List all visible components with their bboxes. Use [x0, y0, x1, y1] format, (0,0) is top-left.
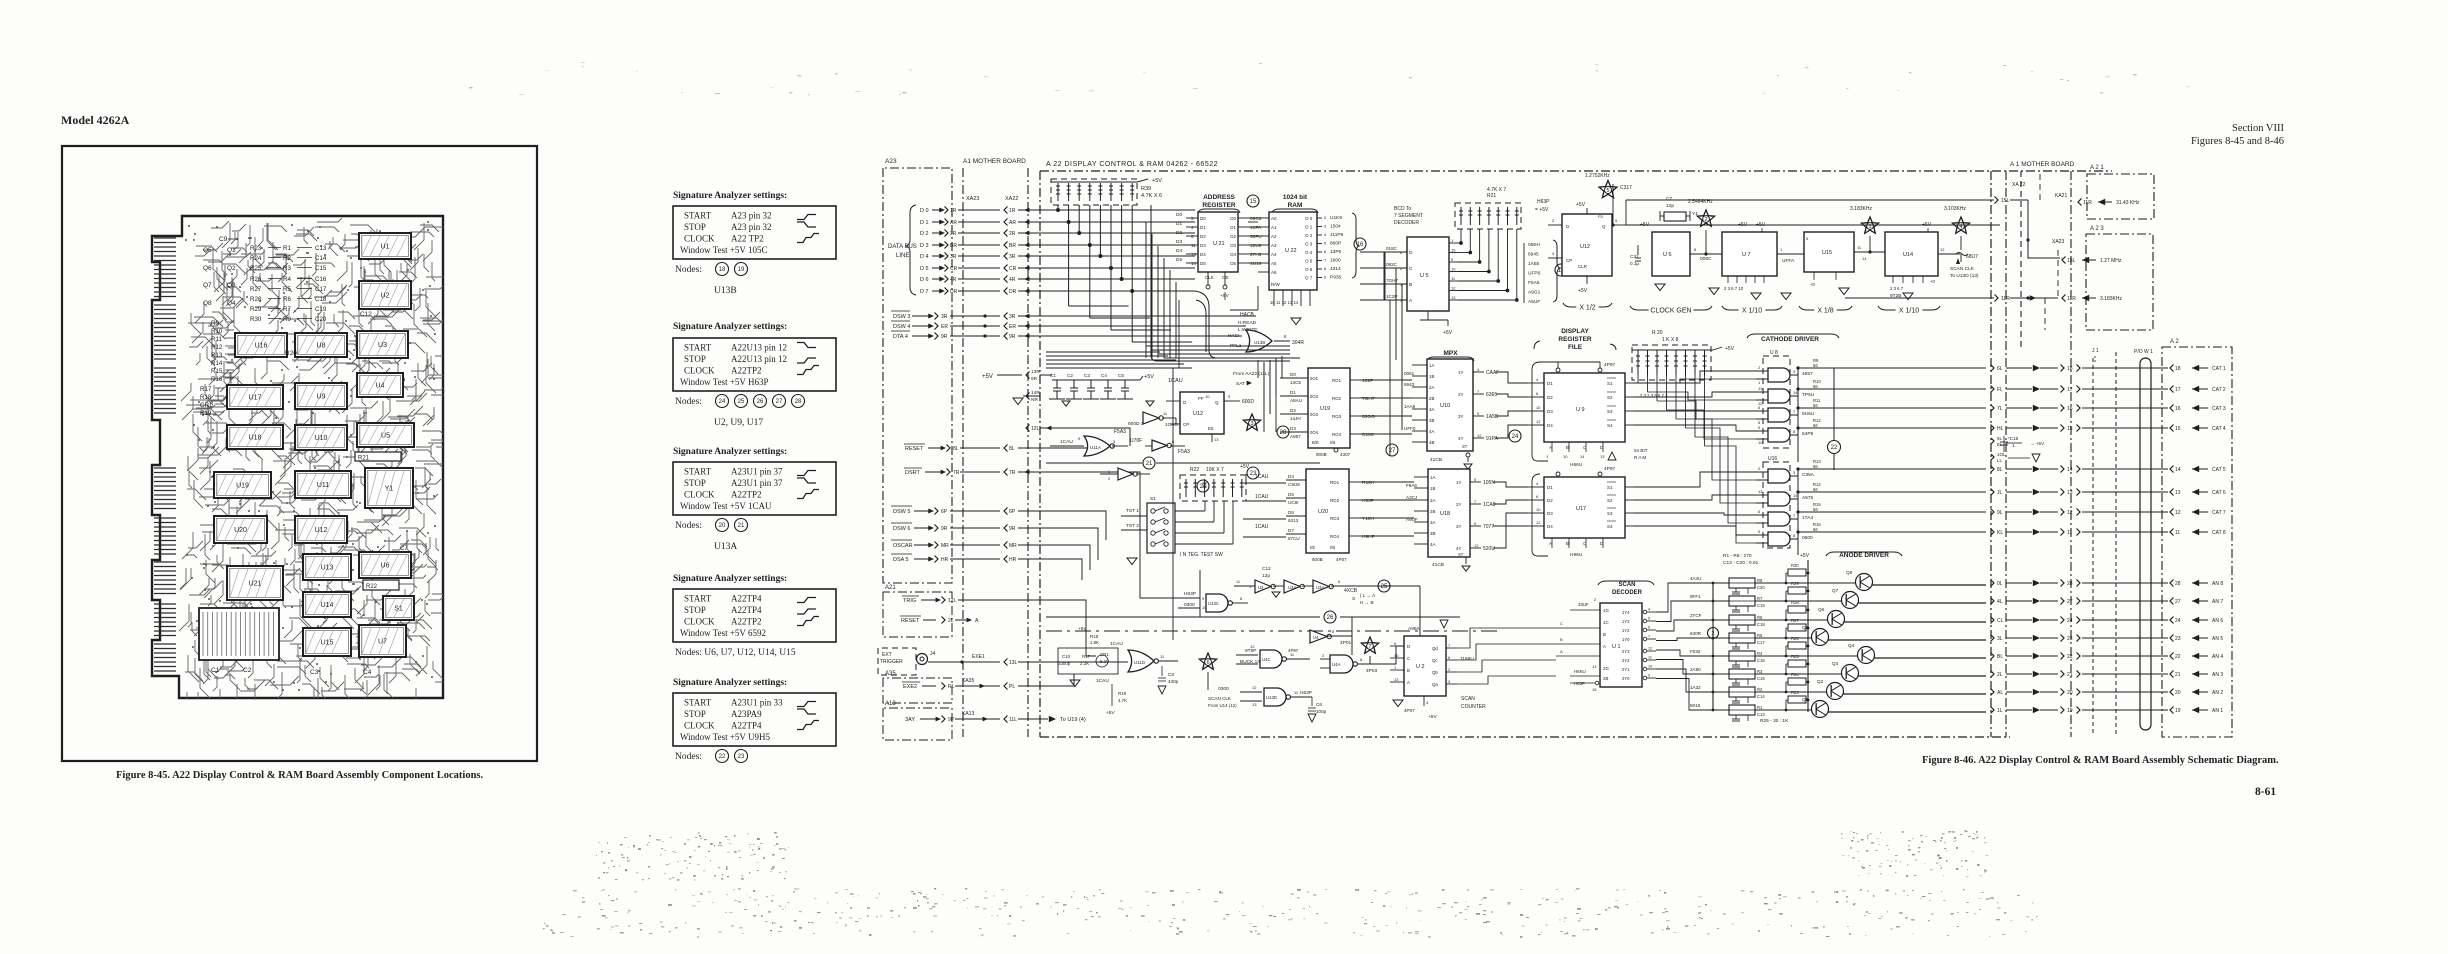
svg-text:R23: R23 — [1791, 690, 1799, 695]
svg-text:O4: O4 — [1230, 252, 1237, 257]
svg-text:S2: S2 — [1607, 395, 1613, 400]
svg-text:D3: D3 — [1547, 409, 1553, 414]
svg-text:A1 MOTHER BOARD: A1 MOTHER BOARD — [963, 158, 1026, 165]
IC U9 register — [1544, 373, 1625, 442]
svg-text:CR: CR — [950, 266, 958, 272]
svg-text:91PA: 91PA — [1486, 436, 1499, 442]
svg-text:D2: D2 — [1547, 395, 1553, 400]
svg-text:S1: S1 — [394, 606, 403, 613]
PCB IC U9 — [295, 383, 347, 409]
U17 top pins — [1556, 472, 1560, 476]
svg-text:1Y: 1Y — [1456, 480, 1461, 485]
svg-text:H96U: H96U — [1570, 552, 1583, 558]
svg-text:56: 56 — [1813, 384, 1818, 389]
wire loop upper — [1196, 300, 1206, 352]
svg-text:600B: 600B — [1312, 557, 1323, 562]
PCB IC S1 — [383, 596, 414, 620]
svg-text:Q3: Q3 — [1832, 661, 1839, 666]
wires inverter chain — [1234, 585, 1255, 587]
svg-text:S1: S1 — [1150, 496, 1156, 502]
svg-text:64P8: 64P8 — [1802, 431, 1814, 437]
svg-text:D1: D1 — [1290, 390, 1296, 395]
svg-text:+5V: +5V — [1800, 553, 1810, 559]
svg-text:R22: R22 — [1190, 467, 1199, 473]
svg-text:A9G1: A9G1 — [1528, 290, 1541, 296]
gate U16-1 — [1768, 469, 1790, 483]
gate U11D — [1128, 650, 1154, 672]
svg-text:33UF: 33UF — [1578, 602, 1589, 607]
svg-text:4A4U: 4A4U — [1690, 576, 1702, 581]
svg-text:A575: A575 — [1802, 495, 1814, 501]
svg-text:4R: 4R — [1009, 277, 1016, 283]
svg-text:4P97: 4P97 — [1604, 362, 1616, 368]
wire AN 7 crossing W1 — [2170, 598, 2174, 605]
svg-text:S3: S3 — [1607, 409, 1613, 414]
svg-text:24: 24 — [2175, 618, 2181, 624]
wire R39 +5V feed — [1051, 181, 1137, 183]
svg-text:6313: 6313 — [1288, 518, 1299, 523]
svg-text:DSW 6: DSW 6 — [893, 526, 910, 532]
svg-text:R1 - R8 : 270: R1 - R8 : 270 — [1723, 553, 1752, 559]
svg-text:0600: 0600 — [1802, 535, 1813, 541]
svg-text:ST: ST — [1458, 552, 1464, 557]
PCB IC U11 — [295, 471, 351, 498]
svg-text:C5: C5 — [1118, 373, 1124, 378]
svg-text:C14: C14 — [1757, 694, 1765, 699]
svg-text:1CAU: 1CAU — [1255, 524, 1269, 530]
PCB IC U18 — [227, 425, 283, 449]
+5V rail anode driver — [1807, 560, 1809, 712]
node 28 — [1277, 426, 1289, 438]
svg-text:600D: 600D — [1242, 399, 1254, 405]
PCB resistor pack R22 — [363, 580, 399, 590]
svg-text:28: 28 — [2067, 581, 2073, 587]
resistor R30 pullup — [1785, 582, 1788, 585]
inverter U3B — [1284, 580, 1300, 593]
node 15 — [1247, 195, 1259, 207]
svg-text:A23U1 pin 37: A23U1 pin 37 — [731, 467, 783, 477]
svg-text:R3: R3 — [283, 265, 291, 272]
svg-text:2Y1: 2Y1 — [1622, 667, 1630, 672]
svg-text:17: 17 — [2175, 387, 2181, 393]
resistor R6 capacitor C18 — [1729, 615, 1755, 625]
svg-text:9R: 9R — [941, 334, 948, 340]
wire U6 to U7 — [1690, 253, 1722, 255]
svg-text:CAT 4: CAT 4 — [2212, 426, 2226, 432]
svg-text:C12: C12 — [360, 311, 372, 318]
svg-text:NR: NR — [1031, 397, 1038, 403]
resistor R4 capacitor C16 — [1729, 651, 1755, 661]
svg-text:21: 21 — [738, 523, 745, 529]
wire EXE1 — [928, 661, 1000, 663]
svg-text:R30: R30 — [1791, 563, 1799, 568]
wire cathode line CAT 4 — [1798, 427, 1986, 429]
svg-text:HACB: HACB — [1240, 312, 1255, 318]
svg-text:Nodes: U6, U7, U12, U14,: Nodes: U6, U7, U12, U14, U15 — [675, 648, 796, 658]
wire cathode CAT 3 crossing W1 — [2170, 405, 2174, 412]
svg-text:28: 28 — [1280, 430, 1287, 436]
svg-text:RESET: RESET — [901, 618, 920, 624]
svg-text:14JH: 14JH — [1290, 416, 1301, 421]
right motherboard rail 2 — [2070, 171, 2072, 737]
svg-text:12: 12 — [1252, 685, 1257, 690]
svg-text:C19: C19 — [1757, 603, 1765, 608]
svg-text:U12: U12 — [315, 527, 328, 534]
svg-text:C6: C6 — [1316, 702, 1322, 707]
svg-text:23: 23 — [2067, 636, 2073, 642]
svg-text:3.183KHz: 3.183KHz — [2100, 296, 2122, 302]
svg-text:U13A: U13A — [714, 542, 737, 552]
U14 bottom pins — [1892, 276, 1894, 283]
wire U21 outputs to U22 inputs — [1248, 217, 1258, 219]
svg-text:A 2 1: A 2 1 — [2090, 165, 2104, 171]
svg-text:3: 3 — [1250, 421, 1253, 427]
svg-text:CLOCK GEN: CLOCK GEN — [1650, 308, 1691, 315]
inverter U4B — [1310, 630, 1327, 643]
svg-text:U16: U16 — [1768, 456, 1777, 462]
svg-text:U 5: U 5 — [1420, 273, 1429, 279]
svg-text:9: 9 — [1648, 674, 1650, 678]
svg-text:Q2: Q2 — [227, 265, 236, 272]
svg-text:Figure 8-46. A22 Display Cont: Figure 8-46. A22 Display Control & RAM B… — [1922, 755, 2279, 766]
svg-text:U16: U16 — [255, 343, 268, 350]
svg-text:A21: A21 — [885, 585, 896, 591]
svg-text:SCAN: SCAN — [1618, 582, 1635, 588]
svg-text:U6: U6 — [381, 563, 390, 570]
cathode driver U16 box — [1763, 462, 1790, 548]
svg-text:A1: A1 — [1271, 225, 1277, 230]
wire anode row AN 5 signal 630R — [1656, 638, 1729, 641]
svg-text:R22: R22 — [366, 584, 378, 590]
svg-text:LINE: LINE — [896, 253, 909, 259]
resistor R27 pullup — [1785, 637, 1788, 640]
svg-text:DR: DR — [1009, 289, 1017, 295]
svg-text:R21: R21 — [358, 456, 370, 462]
brace X 1/10 b — [1878, 306, 1940, 315]
wire clock out right — [1956, 253, 1960, 255]
svg-text:C16: C16 — [1757, 658, 1765, 663]
svg-text:4307: 4307 — [1340, 452, 1351, 457]
svg-text:1CAU: 1CAU — [1110, 641, 1123, 647]
svg-text:C9: C9 — [219, 236, 228, 243]
svg-text:CAT 1: CAT 1 — [2212, 366, 2226, 372]
gate U16-2 — [1768, 492, 1790, 506]
svg-text:100p: 100p — [1316, 709, 1327, 714]
connector box A2 — [2162, 347, 2232, 737]
svg-text:D5: D5 — [1200, 261, 1206, 266]
svg-text:F032: F032 — [1690, 649, 1701, 654]
ground at 14R — [1026, 393, 1030, 400]
signature analyzer block 1 box — [673, 206, 836, 259]
svg-text:RO3: RO3 — [1330, 516, 1340, 521]
svg-text:CLOCK: CLOCK — [684, 366, 715, 376]
svg-text:O 2: O 2 — [1305, 233, 1313, 238]
svg-text:2Y2: 2Y2 — [1622, 658, 1630, 663]
svg-text:H66U: H66U — [1570, 462, 1583, 468]
svg-text:Q7: Q7 — [203, 282, 212, 289]
wire anode AN 3 output — [1858, 675, 1986, 677]
svg-text:U4: U4 — [376, 383, 385, 390]
svg-text:1600: 1600 — [1330, 258, 1341, 264]
ground U2 — [1393, 700, 1403, 707]
wire anode row AN 3 signal 2A90 — [1656, 660, 1729, 675]
svg-text:14: 14 — [1793, 390, 1798, 395]
svg-text:1OL: 1OL — [1997, 452, 2006, 457]
svg-text:1Y0: 1Y0 — [1622, 637, 1630, 642]
svg-text:H03P: H03P — [1362, 498, 1374, 504]
svg-text:C13: C13 — [1757, 712, 1765, 717]
node 20 — [1197, 480, 1209, 492]
svg-text:O3: O3 — [1230, 243, 1237, 248]
svg-text:Q: Q — [1215, 400, 1219, 405]
svg-text:C9U8: C9U8 — [1288, 482, 1300, 487]
svg-text:TRIG: TRIG — [903, 598, 916, 604]
svg-text:A23: A23 — [885, 158, 897, 165]
svg-text:I N TEG. TEST SW: I N TEG. TEST SW — [1180, 552, 1223, 558]
svg-text:D1: D1 — [1176, 221, 1182, 227]
PCB IC U21 — [227, 566, 283, 600]
svg-text:C7: C7 — [1666, 196, 1672, 202]
svg-text:15: 15 — [1592, 687, 1597, 692]
svg-text:0300: 0300 — [1218, 686, 1229, 692]
svg-text:BR: BR — [950, 243, 957, 249]
svg-text:+5V: +5V — [1152, 178, 1162, 184]
svg-text:24: 24 — [1512, 434, 1519, 440]
svg-text:R17: R17 — [200, 386, 212, 393]
svg-text:2Y0: 2Y0 — [1622, 676, 1630, 681]
wire anode AN 6 output — [1844, 621, 1986, 623]
svg-text:R29: R29 — [1791, 581, 1799, 586]
svg-text:13: 13 — [1252, 702, 1257, 707]
svg-text:1CAU: 1CAU — [1255, 494, 1269, 500]
node 23 — [1247, 467, 1259, 479]
svg-text:R26: R26 — [250, 276, 262, 283]
svg-text:4P01: 4P01 — [1340, 640, 1352, 646]
node 16 — [1354, 238, 1366, 250]
svg-text:1.27 MHz: 1.27 MHz — [2100, 258, 2122, 264]
svg-text:3B: 3B — [1430, 531, 1435, 536]
brace X 1/2 — [1563, 303, 1612, 312]
svg-text:D4: D4 — [1176, 248, 1182, 254]
svg-text:ER: ER — [1009, 324, 1016, 330]
svg-text:RO3: RO3 — [1332, 414, 1342, 419]
IC U1 scan decoder — [1600, 603, 1642, 687]
svg-text:START: START — [684, 343, 712, 353]
svg-text:600D 3: 600D 3 — [1128, 421, 1144, 427]
svg-text:U14: U14 — [1903, 252, 1913, 258]
svg-text:R1: R1 — [283, 245, 291, 252]
svg-text:9R: 9R — [941, 526, 948, 532]
svg-text:R5: R5 — [283, 286, 291, 293]
U2 bottom pins — [1423, 696, 1425, 706]
svg-text:S3: S3 — [1607, 511, 1613, 516]
star 4 — [1952, 217, 1969, 233]
resistor R1 capacitor C13 — [1729, 705, 1755, 715]
anode driver input bracket — [1712, 583, 1714, 710]
wire AN 2 crossing W1 — [2170, 689, 2174, 696]
PCB IC U6 — [359, 552, 411, 578]
long vertical x1200 from gate U13C up — [1199, 570, 1201, 617]
svg-text:R9: R9 — [283, 316, 291, 323]
svg-text:U4A: U4A — [1332, 662, 1340, 667]
svg-text:1A32: 1A32 — [1690, 685, 1701, 690]
svg-text:41CB: 41CB — [1432, 562, 1444, 568]
dense comb under RAM — [1274, 298, 1310, 306]
svg-text:0.1μ: 0.1μ — [1630, 261, 1639, 266]
svg-text:304R: 304R — [1292, 340, 1304, 346]
svg-text:12L: 12L — [1031, 426, 1040, 432]
wire R20 +5V — [1632, 349, 1713, 351]
svg-text:U 9: U 9 — [1576, 407, 1585, 413]
svg-text:05C6: 05C6 — [1250, 216, 1262, 222]
svg-text:A: A — [1549, 445, 1552, 450]
svg-text:10K X 7: 10K X 7 — [1206, 467, 1224, 473]
svg-text:19: 19 — [2175, 708, 2181, 714]
svg-text:RO4: RO4 — [1332, 432, 1342, 437]
svg-text:C19: C19 — [315, 306, 327, 313]
svg-text:11: 11 — [2175, 530, 2180, 536]
svg-text:From U14 (12): From U14 (12) — [1208, 703, 1237, 708]
svg-text:O 4: O 4 — [1305, 250, 1313, 255]
svg-text:28: 28 — [2175, 581, 2181, 587]
svg-text:7R: 7R — [953, 470, 960, 476]
svg-text:H9HP: H9HP — [1362, 534, 1375, 540]
vertical feed lines to U5 — [1384, 252, 1386, 300]
svg-text:U3A: U3A — [1316, 585, 1324, 590]
svg-text:U10: U10 — [1440, 403, 1450, 409]
vertical wire cathode bus a — [1797, 368, 1799, 462]
svg-text:MR: MR — [941, 543, 949, 549]
svg-text:D 3: D 3 — [920, 243, 929, 249]
svg-text:R2: R2 — [1757, 687, 1763, 692]
svg-text:D2: D2 — [1290, 408, 1296, 413]
svg-text:13: 13 — [1758, 489, 1763, 494]
svg-text:Q8: Q8 — [203, 300, 212, 307]
svg-text:U 21: U 21 — [1213, 241, 1225, 247]
svg-text:+5V: +5V — [1725, 346, 1735, 352]
svg-text:CAT 3: CAT 3 — [2212, 406, 2226, 412]
wire anode row AN 6 signal 2TCF — [1656, 620, 1729, 631]
svg-text:To U19 (4): To U19 (4) — [1060, 717, 1086, 723]
svg-text:13: 13 — [2175, 490, 2181, 496]
svg-text:R39: R39 — [1141, 186, 1151, 192]
svg-text:13: 13 — [2067, 490, 2073, 496]
svg-text:X 1/10: X 1/10 — [1742, 308, 1762, 315]
resistor network R21 box — [1455, 203, 1521, 229]
svg-text:F5A3: F5A3 — [1178, 449, 1190, 455]
svg-text:10: 10 — [1536, 405, 1541, 410]
wire to transistor Q7 — [1786, 600, 1842, 602]
svg-text:RO1: RO1 — [1330, 480, 1340, 485]
svg-text:1A: 1A — [1430, 475, 1435, 480]
svg-text:START: START — [684, 467, 712, 477]
svg-text:J4: J4 — [930, 651, 936, 657]
U7 bottom pins — [1727, 276, 1729, 283]
svg-text:A: A — [1549, 541, 1552, 546]
svg-text:7GH7: 7GH7 — [1386, 278, 1398, 283]
svg-text:22: 22 — [2175, 654, 2181, 660]
svg-text:10: 10 — [1394, 653, 1399, 658]
svg-text:CLK: CLK — [1205, 275, 1214, 280]
svg-text:R25: R25 — [250, 265, 262, 272]
svg-text:AN 2: AN 2 — [2212, 690, 2223, 696]
svg-text:10: 10 — [1648, 665, 1652, 669]
svg-text:H63P: H63P — [1300, 690, 1312, 696]
svg-text:D7: D7 — [1288, 528, 1294, 533]
svg-text:RAM: RAM — [1288, 202, 1303, 209]
wires bus bundle to U19 horizontals — [1146, 346, 1290, 358]
wires into U20 — [1243, 482, 1286, 484]
svg-text:Window Test +5V 105C: Window Test +5V 105C — [680, 245, 768, 255]
svg-text:R6: R6 — [1757, 615, 1763, 620]
svg-text:3Y: 3Y — [1458, 414, 1463, 419]
wire to transistor Q3 — [1786, 673, 1842, 675]
ground under U22 — [1291, 318, 1301, 325]
svg-text:STOP: STOP — [684, 354, 706, 364]
svg-text:23: 23 — [1250, 471, 1257, 477]
right motherboard rail 1 — [2005, 171, 2007, 737]
svg-text:Figure 8-45. A22 Display Cont: Figure 8-45. A22 Display Control & RAM B… — [116, 770, 484, 781]
svg-text:6945: 6945 — [1528, 252, 1539, 258]
svg-text:O 3: O 3 — [1305, 242, 1313, 247]
wire 5L EL stub — [1991, 438, 1994, 444]
svg-text:1CAU: 1CAU — [1168, 378, 1183, 384]
U9 top pins — [1556, 368, 1560, 372]
svg-text:4B: 4B — [1429, 440, 1434, 445]
svg-text:FILE: FILE — [1568, 344, 1583, 351]
svg-text:1A5B: 1A5B — [1486, 414, 1499, 420]
svg-text:12: 12 — [1536, 520, 1541, 525]
svg-text:EL: EL — [1997, 442, 2003, 447]
svg-text:18: 18 — [2175, 366, 2181, 372]
svg-text:D3: D3 — [1290, 426, 1296, 431]
gate U8-3 — [1768, 408, 1790, 422]
wire anode row AN 8 signal 4A4U — [1656, 583, 1729, 612]
svg-text:11L: 11L — [1009, 717, 1017, 723]
capacitor bank C1-C5 — [1049, 380, 1140, 399]
svg-text:A23 pin 32: A23 pin 32 — [731, 222, 772, 232]
star 6 — [1199, 653, 1216, 669]
svg-text:26: 26 — [1327, 615, 1334, 621]
svg-text:RESET: RESET — [905, 446, 924, 452]
svg-text:1168U: 1168U — [1460, 656, 1474, 662]
svg-text:Window Test +5V H63P: Window Test +5V H63P — [680, 377, 769, 387]
svg-text:9P: 9P — [948, 717, 955, 723]
svg-text:13: 13 — [1592, 664, 1597, 669]
wire 11R from clock — [1870, 297, 1994, 299]
svg-text:20: 20 — [2175, 690, 2181, 696]
svg-text:U13D: U13D — [1266, 695, 1277, 700]
svg-text:R4: R4 — [1757, 651, 1763, 656]
svg-text:0O4: 0O4 — [1310, 430, 1319, 435]
svg-text:19: 19 — [2067, 708, 2073, 714]
DATA BUS LINE bracket — [906, 205, 916, 295]
svg-text:54 BIT: 54 BIT — [1634, 448, 1648, 453]
svg-text:0061: 0061 — [1404, 371, 1415, 376]
svg-text:AN 4: AN 4 — [2212, 654, 2223, 660]
wire KA23 vertical — [2057, 250, 2059, 298]
svg-text:9U6U: 9U6U — [1802, 411, 1815, 417]
svg-text:14: 14 — [1191, 261, 1197, 266]
PCB IC U20 — [214, 516, 267, 543]
svg-text:CLOCK: CLOCK — [684, 490, 715, 500]
svg-text:12p: 12p — [1262, 573, 1270, 579]
svg-text:Q2: Q2 — [1817, 679, 1824, 684]
svg-text:17: 17 — [2067, 387, 2073, 393]
svg-text:16: 16 — [2175, 406, 2181, 412]
svg-text:12: 12 — [1474, 543, 1479, 548]
schematic border left — [1039, 171, 1041, 737]
